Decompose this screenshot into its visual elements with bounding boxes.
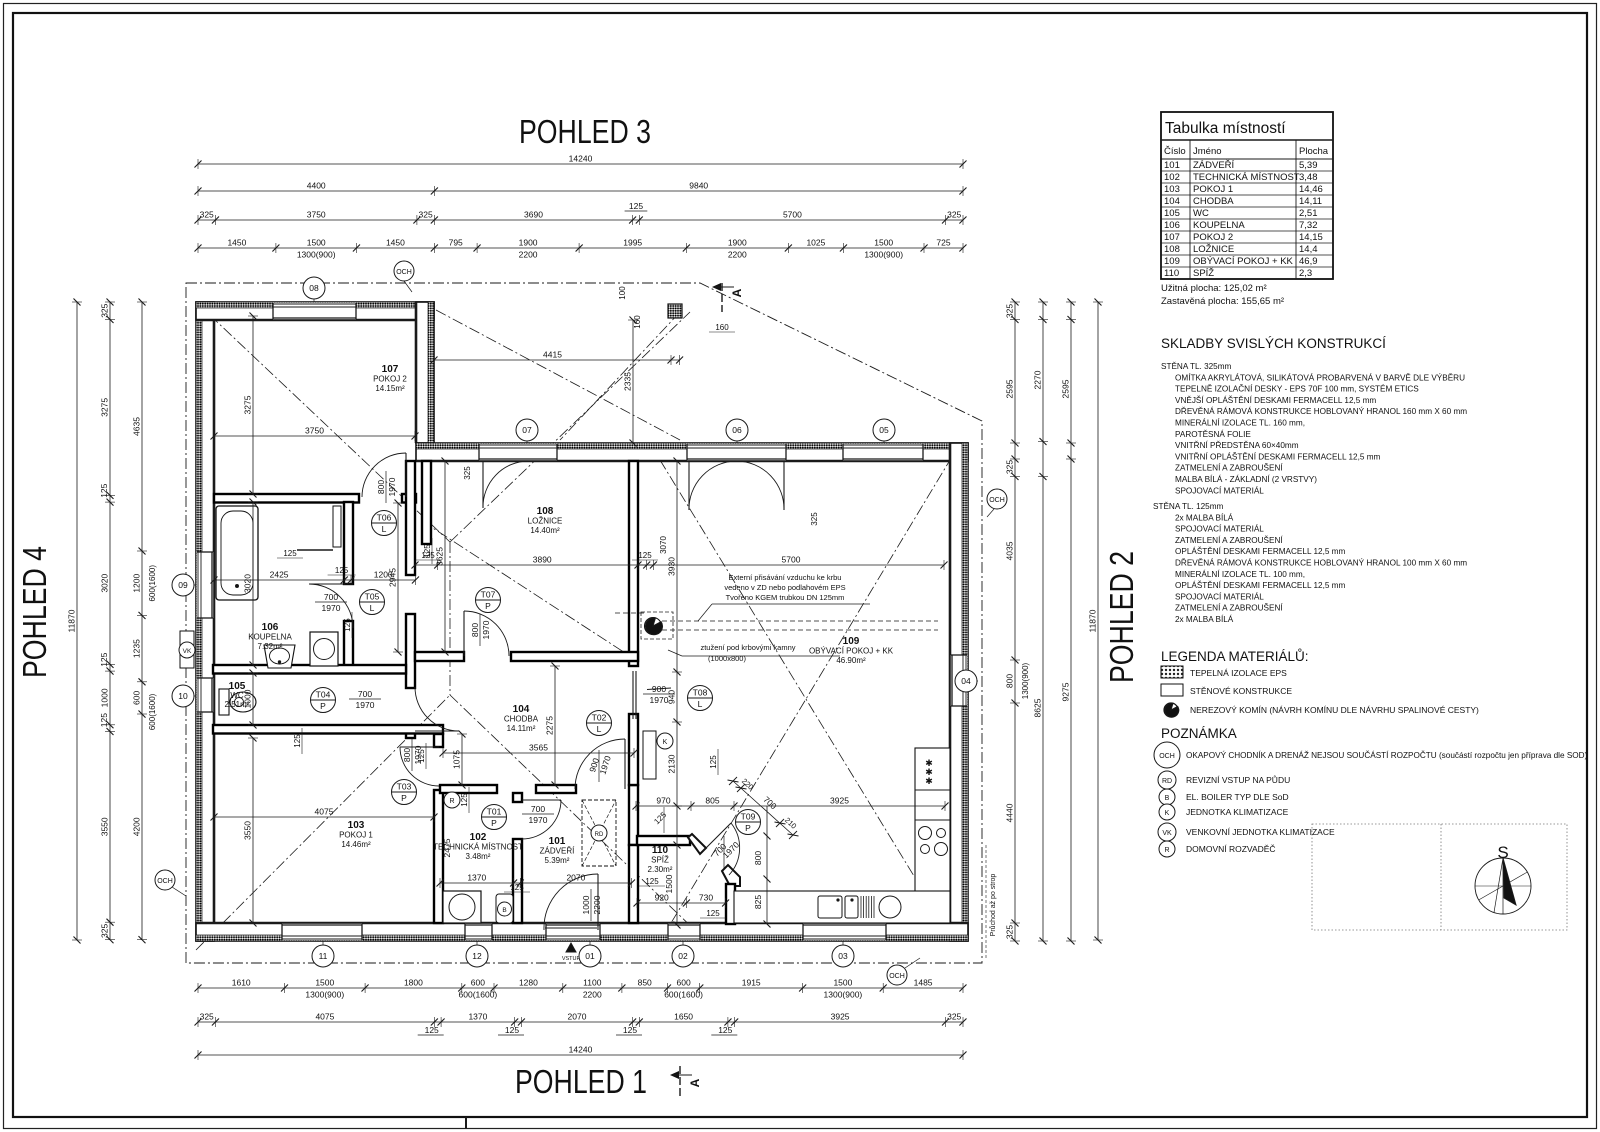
bedroom 108 south wall: [415, 652, 464, 661]
svg-text:2595: 2595: [1061, 379, 1071, 398]
svg-text:600: 600: [132, 691, 142, 705]
svg-text:1075: 1075: [452, 750, 462, 769]
svg-text:125: 125: [283, 549, 297, 558]
svg-text:1300(900): 1300(900): [297, 250, 336, 260]
right dimension column 2: [1042, 302, 1044, 941]
svg-text:1300(900): 1300(900): [864, 250, 903, 260]
svg-text:2,51: 2,51: [1299, 208, 1318, 219]
door tag 01: [589, 941, 591, 956]
svg-text:2200: 2200: [519, 250, 538, 260]
roof hip lower-mid: [450, 695, 700, 935]
svg-text:106: 106: [1164, 220, 1180, 231]
svg-text:3.48m²: 3.48m²: [466, 852, 491, 861]
svg-text:P: P: [401, 793, 407, 803]
svg-text:14.40m²: 14.40m²: [530, 526, 560, 535]
note R: [1159, 841, 1175, 857]
svg-text:L: L: [370, 603, 375, 613]
svg-text:325: 325: [947, 1012, 961, 1022]
svg-text:107: 107: [1164, 232, 1180, 243]
svg-text:SPÍŽ: SPÍŽ: [1193, 268, 1214, 279]
svg-text:DŘEVĚNÁ RÁMOVÁ KONSTRUKCE HOBL: DŘEVĚNÁ RÁMOVÁ KONSTRUKCE HOBLOVANÝ HRAN…: [1175, 558, 1467, 568]
left dimension column 2: [109, 302, 111, 940]
window tag 06: [736, 430, 738, 443]
svg-text:160: 160: [633, 315, 642, 329]
bathroom east partition: [344, 502, 353, 584]
bathtub: [216, 506, 258, 600]
svg-text:04: 04: [961, 676, 971, 686]
top dimension row 3: [198, 219, 963, 221]
door tag T03: [392, 780, 417, 805]
svg-text:800: 800: [470, 623, 480, 637]
svg-text:3275: 3275: [243, 395, 253, 414]
window tag 04: [968, 680, 978, 682]
svg-text:3925: 3925: [831, 1012, 850, 1022]
svg-text:730: 730: [699, 893, 713, 903]
svg-text:4075: 4075: [315, 807, 334, 817]
kitchen counter right: [915, 748, 950, 893]
svg-text:POHLED 3: POHLED 3: [519, 113, 651, 150]
svg-text:125: 125: [417, 749, 426, 763]
svg-text:3750: 3750: [307, 210, 326, 220]
svg-text:325: 325: [419, 210, 433, 220]
svg-text:600(1600): 600(1600): [148, 565, 157, 602]
right dimension column 1: [1014, 302, 1016, 941]
svg-text:1000: 1000: [243, 689, 253, 708]
VK outdoor unit on facade: [180, 631, 194, 668]
svg-text:3550: 3550: [100, 817, 110, 836]
svg-text:1800: 1800: [404, 978, 423, 988]
door T02 (corridor): [624, 739, 626, 789]
svg-text:STĚNA TL. 125mm: STĚNA TL. 125mm: [1153, 501, 1224, 511]
inner dim wc vertical: [252, 673, 254, 725]
note B: [1159, 789, 1175, 805]
svg-text:1235: 1235: [132, 639, 142, 658]
svg-text:125: 125: [460, 793, 469, 807]
svg-text:B: B: [502, 907, 506, 914]
door T08 leaf: [632, 671, 634, 719]
svg-text:3550: 3550: [243, 821, 253, 840]
inner terrace dims: [434, 359, 680, 361]
svg-text:101: 101: [549, 836, 566, 847]
svg-text:P: P: [491, 818, 497, 828]
svg-text:2130: 2130: [667, 754, 677, 773]
legend EPS hatch box: [1161, 666, 1183, 678]
svg-text:K: K: [1165, 810, 1170, 817]
svg-text:3750: 3750: [305, 426, 324, 436]
svg-text:SPOJOVACÍ MATERIÁL: SPOJOVACÍ MATERIÁL: [1175, 524, 1264, 534]
svg-text:L: L: [698, 699, 703, 709]
top dimension row 1: 14240: [198, 163, 963, 165]
svg-text:OCH: OCH: [157, 878, 173, 885]
svg-text:1970: 1970: [481, 620, 491, 639]
svg-text:1370: 1370: [467, 873, 486, 883]
svg-text:2200: 2200: [728, 250, 747, 260]
svg-text:1300(900): 1300(900): [305, 990, 344, 1000]
svg-text:106: 106: [262, 622, 279, 633]
bottom dimension row 3: total: [198, 1054, 963, 1056]
svg-text:46.90m²: 46.90m²: [836, 656, 866, 665]
svg-text:03: 03: [838, 951, 848, 961]
svg-text:325: 325: [1005, 460, 1015, 474]
svg-text:1300(900): 1300(900): [1021, 662, 1030, 699]
svg-text:2425: 2425: [270, 570, 289, 580]
french door 06 opening: [687, 444, 786, 460]
svg-text:325: 325: [100, 303, 110, 317]
svg-text:101: 101: [1164, 160, 1180, 171]
svg-text:102: 102: [1164, 172, 1180, 183]
svg-text:14.11m²: 14.11m²: [507, 724, 536, 733]
svg-text:02: 02: [678, 951, 688, 961]
svg-text:700: 700: [324, 592, 338, 602]
window 09 left wall (bathroom): [197, 552, 213, 618]
svg-text:MINERÁLNÍ IZOLACE TL. 100 mm,: MINERÁLNÍ IZOLACE TL. 100 mm,: [1175, 569, 1305, 579]
chimney: [645, 618, 662, 635]
svg-text:P: P: [485, 601, 491, 611]
table Tabulka mistnosti: [1161, 112, 1333, 279]
svg-text:5700: 5700: [782, 555, 801, 565]
svg-text:06: 06: [732, 425, 742, 435]
top dimension row 2: [198, 190, 963, 192]
svg-text:1500: 1500: [874, 238, 893, 248]
svg-text:125: 125: [293, 734, 302, 748]
svg-text:NEREZOVÝ KOMÍN (NÁVRH KOMÍNU D: NEREZOVÝ KOMÍN (NÁVRH KOMÍNU DLE NÁVRHU …: [1190, 705, 1479, 715]
eaves outline (dash-dot): [186, 283, 982, 963]
svg-text:970: 970: [656, 796, 670, 806]
svg-text:1970: 1970: [356, 700, 375, 710]
inner dim 108 horizontal: [415, 564, 653, 566]
klimatizace unit K: [643, 731, 656, 779]
svg-text:110: 110: [1164, 268, 1179, 279]
bedroom 108 west wall: [422, 461, 431, 544]
svg-text:1450: 1450: [386, 238, 405, 248]
svg-text:A: A: [730, 288, 744, 297]
door T03 (room 103): [400, 746, 439, 748]
svg-text:12: 12: [472, 951, 482, 961]
svg-text:1500: 1500: [833, 978, 852, 988]
window tag 02: [682, 941, 684, 956]
svg-text:600(1600): 600(1600): [459, 990, 498, 1000]
svg-text:125: 125: [645, 877, 659, 886]
window tag 11: [322, 941, 324, 956]
el. boiler B: [496, 894, 513, 923]
window 05: [843, 444, 923, 460]
svg-text:Průchod až po strop: Průchod až po strop: [989, 874, 997, 937]
washing machine: [310, 632, 338, 666]
svg-text:(1000x800): (1000x800): [708, 654, 746, 663]
svg-text:325: 325: [1005, 925, 1015, 939]
svg-text:✱: ✱: [925, 776, 933, 786]
door tag T04: [311, 688, 336, 713]
living room roof diagonal 1: [660, 460, 950, 935]
svg-text:5.39m²: 5.39m²: [545, 856, 570, 865]
svg-text:OCH: OCH: [989, 497, 1005, 504]
window 02 bottom wall: [668, 924, 700, 940]
svg-text:REVIZNÍ VSTUP NA PŮDU: REVIZNÍ VSTUP NA PŮDU: [1186, 774, 1290, 785]
svg-text:3690: 3690: [524, 210, 543, 220]
inner dim kitchen row 970/805/3925: [636, 805, 945, 807]
svg-text:VK: VK: [183, 648, 192, 655]
roof hip bottom-left: [196, 695, 450, 950]
inner dim corridor vertical 2945: [397, 503, 399, 652]
svg-text:1100: 1100: [583, 978, 602, 988]
roof hip to terrace: [450, 312, 690, 542]
svg-text:125: 125: [99, 652, 109, 666]
svg-text:700: 700: [358, 689, 372, 699]
top dimension row 4: [198, 247, 963, 249]
svg-text:2945: 2945: [388, 568, 398, 587]
svg-text:2475: 2475: [442, 838, 452, 857]
svg-text:1280: 1280: [519, 978, 538, 988]
svg-text:B: B: [1165, 795, 1170, 802]
svg-text:325: 325: [947, 210, 961, 220]
svg-text:14240: 14240: [569, 1045, 593, 1055]
svg-text:vedeno v ZD nebo podlahovém EP: vedeno v ZD nebo podlahovém EPS: [724, 583, 845, 592]
svg-text:OPLÁŠTĚNÍ DESKAMI FERMACELL 12: OPLÁŠTĚNÍ DESKAMI FERMACELL 12,5 mm: [1175, 546, 1345, 556]
svg-text:3070: 3070: [659, 536, 668, 554]
legend wall box: [1161, 684, 1183, 696]
svg-text:325: 325: [100, 924, 110, 938]
inner dim room 107 horizontal: [214, 435, 415, 437]
svg-text:1500: 1500: [664, 874, 674, 893]
svg-text:MALBA BÍLÁ - ZÁKLADNÍ (2 VRSTV: MALBA BÍLÁ - ZÁKLADNÍ (2 VRSTVY): [1175, 474, 1317, 484]
svg-text:VSTUP: VSTUP: [562, 956, 581, 962]
svg-text:14.15m²: 14.15m²: [375, 384, 405, 393]
svg-text:PAROTĚSNÁ FOLIE: PAROTĚSNÁ FOLIE: [1175, 429, 1251, 439]
svg-text:VNITŘNÍ PŘEDSTĚNA 60×40mm: VNITŘNÍ PŘEDSTĚNA 60×40mm: [1175, 440, 1299, 450]
svg-text:DOMOVNÍ ROZVADĚČ: DOMOVNÍ ROZVADĚČ: [1186, 844, 1276, 854]
svg-text:09: 09: [178, 580, 188, 590]
svg-text:14,11: 14,11: [1299, 196, 1322, 207]
svg-text:RD: RD: [595, 832, 604, 838]
svg-text:2200: 2200: [583, 990, 602, 1000]
svg-text:KOUPELNA: KOUPELNA: [248, 633, 292, 642]
svg-text:125: 125: [425, 1025, 439, 1035]
svg-text:3275: 3275: [100, 398, 110, 417]
svg-text:14,46: 14,46: [1299, 184, 1323, 195]
svg-text:1970: 1970: [322, 603, 341, 613]
svg-text:325: 325: [1005, 304, 1015, 318]
svg-text:4635: 4635: [132, 417, 142, 436]
svg-text:SKLADBY SVISLÝCH KONSTRUKCÍ: SKLADBY SVISLÝCH KONSTRUKCÍ: [1161, 336, 1386, 351]
svg-text:POHLED 4: POHLED 4: [16, 546, 53, 678]
door tag T06: [372, 511, 397, 536]
svg-text:2595: 2595: [1005, 379, 1015, 398]
svg-text:Jméno: Jméno: [1193, 146, 1222, 157]
svg-text:OMÍTKA AKRYLÁTOVÁ, SILIKÁTOVÁ: OMÍTKA AKRYLÁTOVÁ, SILIKÁTOVÁ PROBARVENÁ…: [1175, 372, 1465, 382]
svg-text:T04: T04: [316, 690, 331, 700]
interior wall below room 107: [214, 494, 359, 503]
svg-text:125: 125: [638, 551, 652, 560]
svg-text:TEPELNÁ IZOLACE EPS: TEPELNÁ IZOLACE EPS: [1190, 668, 1287, 678]
svg-text:RD: RD: [1162, 778, 1172, 785]
svg-text:125: 125: [706, 909, 720, 918]
living room west wall: [629, 461, 638, 666]
svg-text:ZÁDVEŘÍ: ZÁDVEŘÍ: [1193, 160, 1235, 171]
svg-text:8625: 8625: [1033, 698, 1043, 717]
svg-text:VK: VK: [1162, 830, 1172, 837]
svg-text:OKAPOVÝ CHODNÍK A DRENÁŽ NEJSO: OKAPOVÝ CHODNÍK A DRENÁŽ NEJSOU SOUČÁSTÍ…: [1186, 750, 1588, 760]
wc toilet: [219, 689, 229, 715]
attic access RD: [582, 800, 616, 866]
svg-text:JEDNOTKA KLIMATIZACE: JEDNOTKA KLIMATIZACE: [1186, 807, 1289, 817]
svg-text:VNITŘNÍ OPLÁŠTĚNÍ DESKAMI FERM: VNITŘNÍ OPLÁŠTĚNÍ DESKAMI FERMACELL 12,5…: [1175, 451, 1381, 461]
dashed box near chimney: [641, 612, 673, 639]
svg-text:14240: 14240: [569, 154, 593, 164]
bathroom sink: [264, 645, 295, 668]
svg-text:14.46m²: 14.46m²: [341, 840, 371, 849]
left dimension column 3: [141, 302, 143, 940]
svg-text:107: 107: [382, 364, 399, 375]
svg-text:125: 125: [99, 483, 109, 497]
svg-text:2x MALBA BÍLÁ: 2x MALBA BÍLÁ: [1175, 614, 1234, 624]
svg-text:Tvořeno KGEM trubkou DN 125mm: Tvořeno KGEM trubkou DN 125mm: [726, 593, 845, 602]
exterior wall: top of room 107: [196, 302, 434, 320]
svg-text:3890: 3890: [533, 555, 552, 565]
svg-text:EL. BOILER TYP DLE SoD: EL. BOILER TYP DLE SoD: [1186, 792, 1289, 802]
svg-text:4415: 4415: [543, 350, 562, 360]
svg-text:3925: 3925: [830, 796, 849, 806]
svg-text:TEPELNĚ IZOLAČNÍ DESKY - EPS 7: TEPELNĚ IZOLAČNÍ DESKY - EPS 70F 100 mm,…: [1175, 384, 1419, 394]
svg-text:T07: T07: [481, 590, 496, 600]
entry arrow VSTUP: [566, 943, 576, 952]
svg-text:805: 805: [705, 796, 719, 806]
svg-text:2x MALBA BÍLÁ: 2x MALBA BÍLÁ: [1175, 512, 1234, 522]
diagonal dim at pantry door: [733, 781, 793, 835]
svg-text:A: A: [688, 1078, 702, 1087]
svg-text:OPLÁŠTĚNÍ DESKAMI FERMACELL 12: OPLÁŠTĚNÍ DESKAMI FERMACELL 12,5 mm: [1175, 580, 1345, 590]
svg-text:SPOJOVACÍ MATERIÁL: SPOJOVACÍ MATERIÁL: [1175, 591, 1264, 601]
svg-text:POKOJ 2: POKOJ 2: [373, 375, 407, 384]
svg-text:2070: 2070: [566, 873, 585, 883]
svg-text:1485: 1485: [914, 978, 933, 988]
svg-text:R: R: [1164, 847, 1169, 854]
window 04 right wall: [951, 655, 967, 706]
door T06 (107): [405, 453, 407, 497]
svg-text:2270: 2270: [1033, 370, 1043, 389]
bottom dimension row 2: [198, 1021, 963, 1023]
french door 06 swings: [688, 461, 690, 510]
svg-text:125: 125: [343, 618, 352, 632]
svg-text:T02: T02: [592, 713, 607, 723]
svg-text:14,15: 14,15: [1299, 232, 1323, 243]
terrace diagonal 1: [436, 310, 680, 440]
svg-text:TECHNICKÁ MÍSTNOST: TECHNICKÁ MÍSTNOST: [1193, 172, 1300, 183]
svg-text:109: 109: [843, 636, 860, 647]
svg-text:Zastavěná plocha: 155,65 m²: Zastavěná plocha: 155,65 m²: [1161, 296, 1284, 307]
svg-text:3,48: 3,48: [1299, 172, 1318, 183]
svg-text:Tabulka místností: Tabulka místností: [1165, 120, 1286, 137]
svg-text:CHODBA: CHODBA: [504, 715, 539, 724]
svg-text:325: 325: [200, 210, 214, 220]
exterior wall: step wall between 107 and terrace: [416, 302, 434, 443]
svg-text:1995: 1995: [623, 238, 642, 248]
svg-text:1000: 1000: [100, 688, 110, 707]
inner dim living vertical 3930/940/2130: [676, 461, 678, 806]
inner dim 107 vertical: [252, 316, 254, 494]
inner dim 108 vertical: [444, 461, 446, 652]
svg-text:14,4: 14,4: [1299, 244, 1318, 255]
svg-text:600(1600): 600(1600): [148, 693, 157, 730]
svg-text:L: L: [597, 724, 602, 734]
svg-text:825: 825: [753, 895, 763, 909]
svg-text:4400: 4400: [307, 181, 326, 191]
svg-text:795: 795: [449, 238, 463, 248]
bathroom/wc divider: [213, 665, 406, 674]
window tag 03: [842, 941, 844, 956]
svg-text:160: 160: [715, 323, 729, 332]
svg-text:105: 105: [1164, 208, 1180, 219]
svg-text:07: 07: [522, 425, 532, 435]
inner dim 800/825 vertical: [766, 806, 768, 924]
inner dim bathroom horizontal: [214, 579, 415, 581]
door tag T07: [476, 588, 501, 613]
svg-text:VNĚJŠÍ OPLÁŠTĚNÍ DESKAMI FERMA: VNĚJŠÍ OPLÁŠTĚNÍ DESKAMI FERMACELL 12,5 …: [1175, 395, 1376, 405]
roof diagonal through room 108: [422, 521, 636, 660]
section marker A bottom: [679, 1066, 681, 1096]
svg-text:1900: 1900: [728, 238, 747, 248]
svg-text:4440: 4440: [1005, 803, 1015, 822]
svg-text:2,3: 2,3: [1299, 268, 1312, 279]
svg-text:T06: T06: [377, 513, 392, 523]
svg-text:800: 800: [376, 480, 386, 494]
window tag 07: [526, 430, 528, 443]
svg-text:11: 11: [319, 951, 328, 961]
svg-text:Užitná plocha: 125,02 m²: Užitná plocha: 125,02 m²: [1161, 283, 1267, 294]
wc bottom wall: [213, 725, 443, 734]
svg-text:4035: 4035: [1005, 541, 1015, 560]
svg-text:125: 125: [99, 713, 109, 727]
svg-text:POKOJ 2: POKOJ 2: [1193, 232, 1233, 243]
svg-text:2335: 2335: [623, 372, 633, 391]
svg-text:9840: 9840: [689, 181, 708, 191]
svg-text:01: 01: [585, 951, 595, 961]
svg-text:STĚNOVÉ KONSTRUKCE: STĚNOVÉ KONSTRUKCE: [1190, 686, 1292, 696]
inner dim 103: [214, 816, 434, 818]
svg-text:600: 600: [677, 978, 691, 988]
door tag T08: [688, 686, 713, 711]
svg-text:OCH: OCH: [889, 973, 905, 980]
legend chimney symbol: [1164, 703, 1178, 717]
exterior wall: bottom: [196, 923, 968, 941]
svg-text:102: 102: [470, 832, 487, 843]
svg-text:KOUPELNA: KOUPELNA: [1193, 220, 1245, 231]
svg-text:POZNÁMKA: POZNÁMKA: [1161, 726, 1237, 741]
svg-text:5700: 5700: [783, 210, 802, 220]
exterior wall: right: [950, 443, 968, 941]
svg-text:OCH: OCH: [396, 269, 412, 276]
svg-text:Číslo: Číslo: [1164, 146, 1186, 157]
svg-text:DŘEVĚNÁ RÁMOVÁ KONSTRUKCE HOBL: DŘEVĚNÁ RÁMOVÁ KONSTRUKCE HOBLOVANÝ HRAN…: [1175, 406, 1467, 416]
svg-text:T05: T05: [365, 592, 380, 602]
roof hip top-left: [196, 302, 450, 542]
right dimension column 4: total: [1097, 302, 1099, 940]
svg-text:SPOJOVACÍ MATERIÁL: SPOJOVACÍ MATERIÁL: [1175, 485, 1264, 495]
svg-text:L: L: [382, 524, 387, 534]
door 07 swing (top wall): [482, 461, 484, 508]
svg-text:125: 125: [423, 544, 432, 558]
svg-text:P: P: [320, 701, 326, 711]
svg-text:1370: 1370: [468, 1012, 487, 1022]
svg-text:125: 125: [510, 883, 524, 892]
svg-text:325: 325: [200, 1012, 214, 1022]
exterior wall: top of living area: [416, 443, 968, 461]
door T07 (bedroom 108): [463, 611, 465, 656]
window tag 05: [883, 430, 885, 443]
door T05 (bathroom): [309, 583, 353, 585]
svg-text:850: 850: [638, 978, 652, 988]
svg-text:2070: 2070: [568, 1012, 587, 1022]
svg-text:46,9: 46,9: [1299, 256, 1318, 267]
